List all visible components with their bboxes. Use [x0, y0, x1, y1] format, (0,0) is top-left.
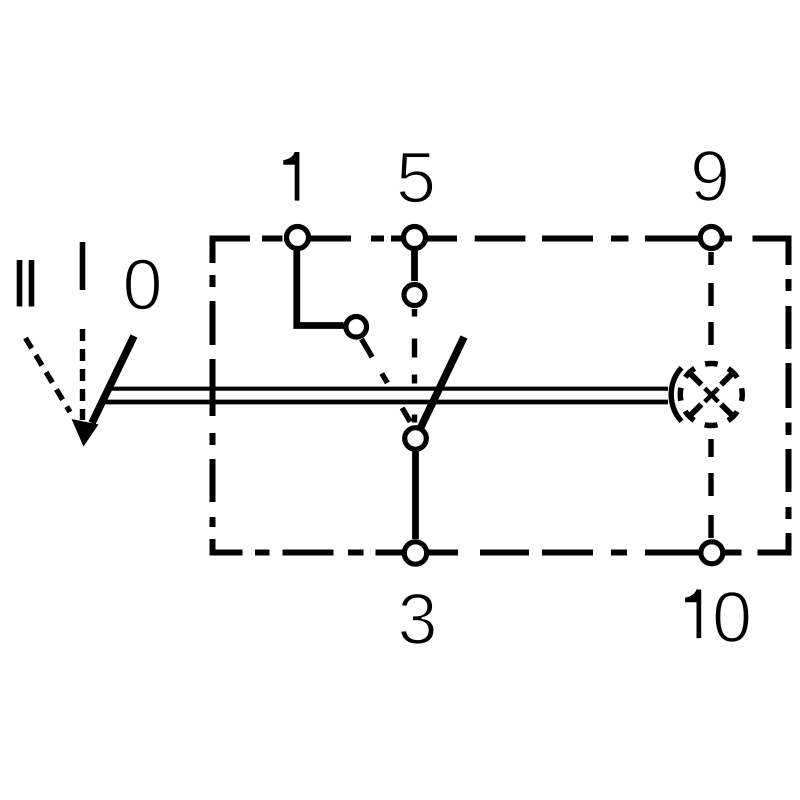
svg-text:5: 5	[396, 139, 436, 219]
svg-text:3: 3	[397, 580, 437, 660]
svg-text:0: 0	[122, 246, 162, 326]
svg-text:9: 9	[690, 137, 730, 217]
svg-text:0: 0	[712, 578, 752, 658]
